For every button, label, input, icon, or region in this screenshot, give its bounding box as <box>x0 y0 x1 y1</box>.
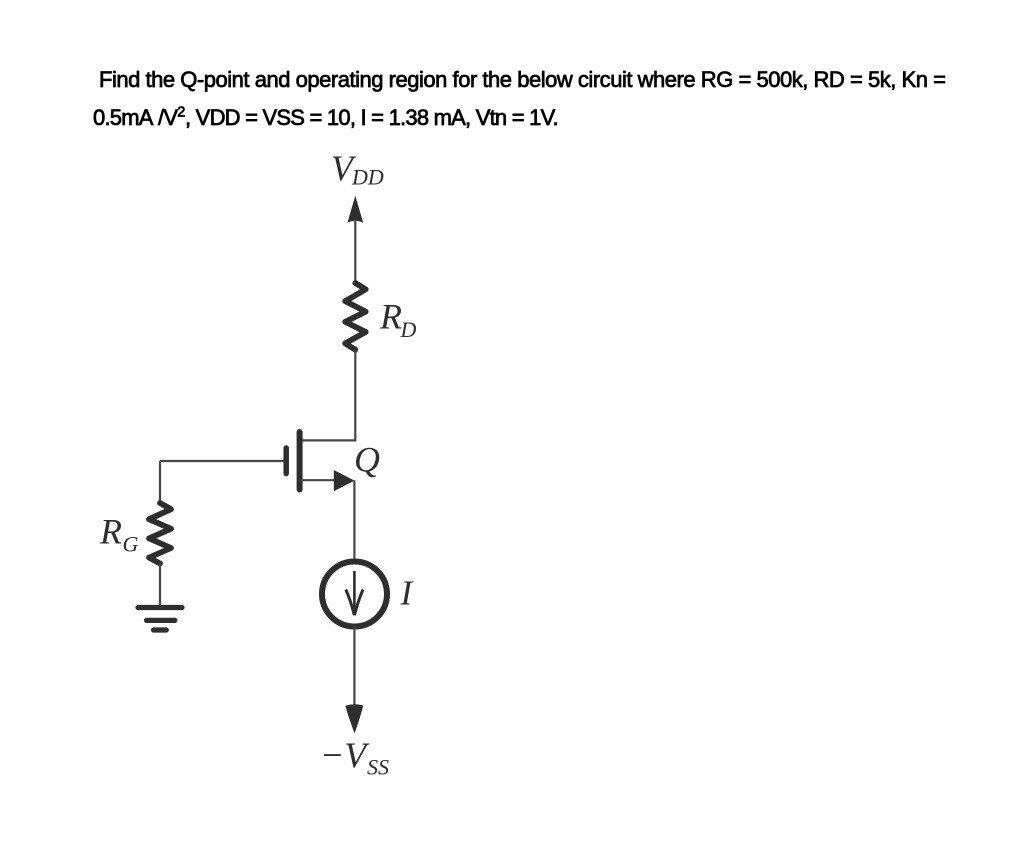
svg-text:Q: Q <box>354 440 380 480</box>
svg-text:−V: −V <box>320 735 370 775</box>
svg-text:I: I <box>400 574 415 613</box>
svg-text:D: D <box>400 317 417 342</box>
svg-text:G: G <box>123 532 139 557</box>
svg-text:DD: DD <box>351 165 384 190</box>
svg-text:R: R <box>99 512 122 552</box>
svg-text:SS: SS <box>367 755 389 780</box>
svg-text:R: R <box>379 297 402 337</box>
